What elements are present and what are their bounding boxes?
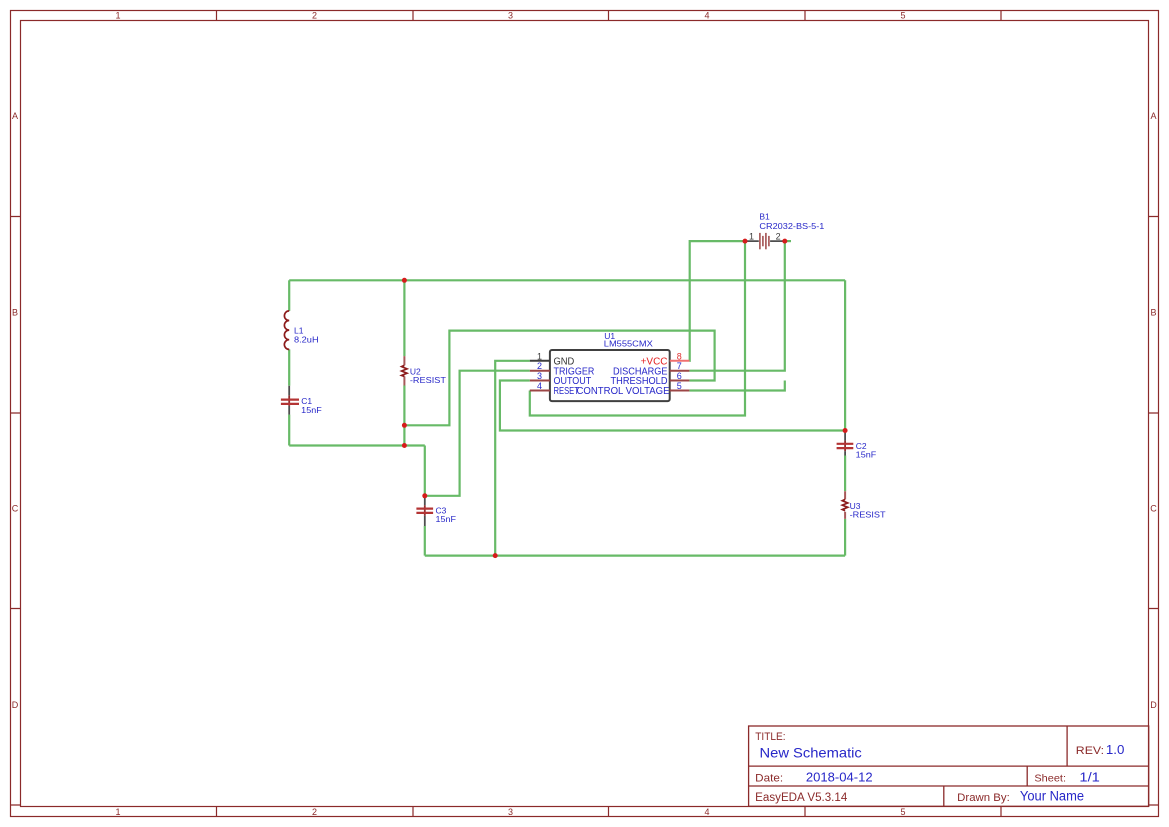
node VCC/U2 top — [402, 278, 407, 283]
svg-text:Drawn By:: Drawn By: — [957, 792, 1010, 804]
wire between L1 and C1 — [288, 349, 290, 385]
node bottom-left junction — [402, 443, 407, 448]
wire above U2 — [403, 280, 405, 356]
svg-text:CR2032-BS-5-1: CR2032-BS-5-1 — [759, 221, 824, 231]
wire battery pin1 to pin8 vcc — [689, 241, 745, 361]
svg-text:3: 3 — [537, 371, 542, 381]
wire bottom-left horizontal — [289, 444, 425, 446]
resistor U3 — [842, 491, 847, 519]
svg-text:5: 5 — [900, 11, 905, 21]
pin 8 stub — [670, 360, 690, 362]
node battery pin1 — [743, 239, 748, 244]
svg-text:B: B — [12, 307, 18, 317]
pin 5 stub — [670, 390, 690, 392]
node battery pin2 — [782, 239, 787, 244]
wire pin5 run with dangling stub — [689, 381, 784, 391]
wire ground bus bottom — [425, 554, 845, 556]
pin 7 stub — [670, 370, 690, 372]
pin 6 stub — [670, 380, 690, 382]
svg-text:1: 1 — [115, 11, 120, 21]
pin 2 stub — [530, 370, 550, 372]
wire below C2 — [844, 456, 846, 492]
wire gnd riser to pin1 — [495, 361, 530, 556]
frame row letters right — [1150, 111, 1157, 710]
inductor L1 — [284, 311, 289, 350]
node C2 top / output — [843, 428, 848, 433]
svg-text:LM555CMX: LM555CMX — [604, 338, 653, 348]
pin 3 stub — [530, 380, 550, 382]
svg-text:-RESIST: -RESIST — [850, 510, 886, 520]
wire battery pin2 right stub — [785, 240, 791, 242]
svg-text:D: D — [1150, 700, 1157, 710]
capacitor C2 — [837, 431, 854, 456]
svg-text:EasyEDA V5.3.14: EasyEDA V5.3.14 — [755, 792, 848, 804]
wire C3 drop — [424, 446, 426, 496]
svg-text:1: 1 — [749, 232, 754, 242]
svg-text:New Schematic: New Schematic — [760, 746, 863, 761]
capacitor C3 — [416, 496, 433, 526]
battery B1 — [745, 233, 785, 249]
frame column numbers top — [115, 11, 905, 21]
svg-text:B: B — [1150, 307, 1156, 317]
wire pin4 reset to battery — [530, 241, 745, 415]
op-amp U1 LM555CMX body — [550, 350, 670, 401]
svg-text:C: C — [12, 503, 19, 513]
svg-text:4: 4 — [704, 11, 709, 21]
svg-text:Your Name: Your Name — [1020, 789, 1084, 804]
svg-text:6: 6 — [677, 371, 682, 381]
svg-text:C: C — [1150, 503, 1157, 513]
svg-text:15nF: 15nF — [856, 449, 877, 459]
wire battery pin2 down to pin7 — [689, 241, 784, 371]
capacitor C1 — [281, 386, 299, 415]
pin 4 stub — [530, 390, 550, 392]
frame row letters left — [12, 111, 19, 710]
svg-text:2: 2 — [312, 807, 317, 817]
svg-text:-RESIST: -RESIST — [410, 375, 446, 385]
resistor U2 — [402, 356, 407, 385]
wire node U2bottom to threshold riser — [404, 331, 714, 426]
wire left vertical above L1 — [288, 280, 290, 311]
svg-text:15nF: 15nF — [301, 405, 322, 415]
svg-text:2018-04-12: 2018-04-12 — [806, 771, 873, 785]
wire top horizontal VCC rail — [289, 279, 845, 281]
svg-text:1: 1 — [537, 351, 542, 361]
svg-text:5: 5 — [677, 381, 682, 391]
node gnd bus / pin1 riser — [493, 553, 498, 558]
svg-text:15nF: 15nF — [436, 514, 457, 524]
svg-text:2: 2 — [537, 361, 542, 371]
svg-text:1.0: 1.0 — [1106, 743, 1125, 757]
svg-text:2: 2 — [776, 232, 781, 242]
node C3 top / trigger — [422, 493, 427, 498]
svg-text:REV:: REV: — [1076, 745, 1104, 757]
svg-text:3: 3 — [508, 807, 513, 817]
svg-text:A: A — [1150, 111, 1156, 121]
svg-text:4: 4 — [704, 807, 709, 817]
svg-text:1/1: 1/1 — [1079, 771, 1100, 785]
svg-text:2: 2 — [312, 11, 317, 21]
svg-text:1: 1 — [115, 807, 120, 817]
pin 1 GND stub — [530, 360, 550, 362]
wire below C1 — [288, 415, 290, 446]
svg-text:Sheet:: Sheet: — [1034, 773, 1066, 785]
wire below U3 — [844, 519, 846, 556]
junction dots — [402, 239, 848, 558]
svg-text:5: 5 — [900, 807, 905, 817]
wire pin3 output run — [500, 381, 845, 431]
wire below U2 — [403, 386, 405, 446]
title block — [749, 726, 1149, 806]
svg-text:D: D — [12, 700, 19, 710]
svg-text:CONTROL VOLTAGE: CONTROL VOLTAGE — [577, 386, 670, 397]
svg-text:7: 7 — [677, 361, 682, 371]
node U2 bottom / threshold — [402, 423, 407, 428]
wire right branch down to C2 — [844, 280, 846, 430]
svg-text:8.2uH: 8.2uH — [294, 334, 319, 344]
svg-text:Date:: Date: — [755, 773, 783, 785]
wire C3 top to trigger riser — [425, 371, 530, 496]
svg-text:A: A — [12, 111, 18, 121]
svg-text:8: 8 — [677, 351, 682, 361]
wire below C3 — [424, 526, 426, 556]
svg-text:4: 4 — [537, 381, 542, 391]
wires (green) — [289, 241, 845, 555]
svg-text:3: 3 — [508, 11, 513, 21]
frame column numbers bottom — [115, 807, 905, 817]
svg-text:TITLE:: TITLE: — [755, 731, 785, 743]
